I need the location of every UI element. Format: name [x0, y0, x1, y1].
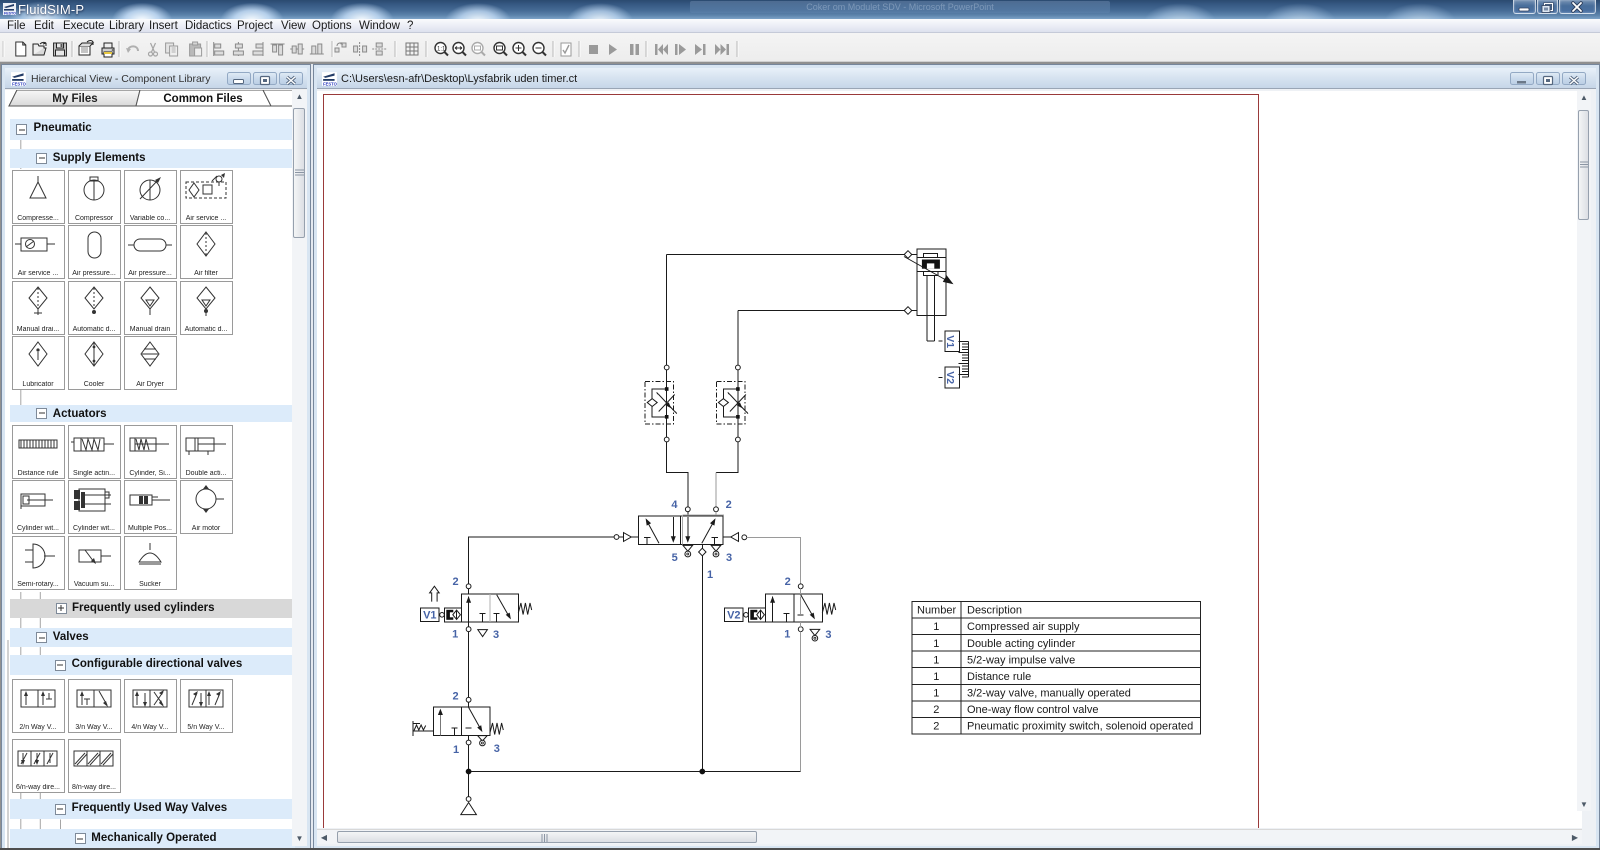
- svg-text:4: 4: [671, 499, 678, 511]
- svg-text:2: 2: [452, 691, 458, 703]
- svg-text:One-way flow control valve: One-way flow control valve: [967, 704, 1098, 716]
- svg-text:Double acting cylinder: Double acting cylinder: [967, 638, 1076, 650]
- svg-text:1: 1: [933, 638, 939, 650]
- svg-text:2: 2: [726, 499, 732, 511]
- svg-text:3/2-way valve, manually operat: 3/2-way valve, manually operated: [967, 687, 1131, 699]
- svg-text:1: 1: [784, 629, 790, 641]
- svg-text:2: 2: [453, 576, 459, 588]
- svg-text:1: 1: [933, 671, 939, 683]
- svg-text:Number: Number: [917, 605, 956, 617]
- svg-text:FESTO: FESTO: [12, 81, 26, 86]
- svg-text:Description: Description: [967, 605, 1022, 617]
- svg-text:My Files: My Files: [52, 93, 97, 105]
- svg-text:3: 3: [726, 552, 732, 564]
- svg-text:V1: V1: [944, 335, 956, 348]
- svg-text:V2: V2: [944, 371, 956, 384]
- svg-text:1: 1: [933, 687, 939, 699]
- svg-text:3: 3: [493, 629, 499, 641]
- svg-text:3: 3: [825, 629, 831, 641]
- svg-text:1:1: 1:1: [437, 47, 446, 53]
- svg-text:Compressed air supply: Compressed air supply: [967, 621, 1080, 633]
- svg-text:FESTO: FESTO: [323, 81, 337, 86]
- svg-text:V2: V2: [727, 610, 740, 622]
- svg-text:1: 1: [452, 629, 458, 641]
- svg-text:2: 2: [785, 576, 791, 588]
- svg-text:1: 1: [707, 569, 713, 581]
- svg-text:FESTO: FESTO: [4, 12, 16, 16]
- svg-text:2: 2: [933, 704, 939, 716]
- svg-text:5: 5: [672, 552, 678, 564]
- svg-text:Common Files: Common Files: [163, 93, 242, 105]
- svg-text:3: 3: [494, 743, 500, 755]
- svg-text:1: 1: [933, 654, 939, 666]
- svg-text:2: 2: [933, 721, 939, 733]
- svg-text:Distance rule: Distance rule: [967, 671, 1031, 683]
- svg-text:1: 1: [933, 621, 939, 633]
- svg-text:Pneumatic proximity switch, so: Pneumatic proximity switch, solenoid ope…: [967, 721, 1193, 733]
- svg-text:1: 1: [453, 744, 459, 756]
- svg-text:V1: V1: [423, 610, 436, 622]
- svg-text:5/2-way impulse valve: 5/2-way impulse valve: [967, 654, 1075, 666]
